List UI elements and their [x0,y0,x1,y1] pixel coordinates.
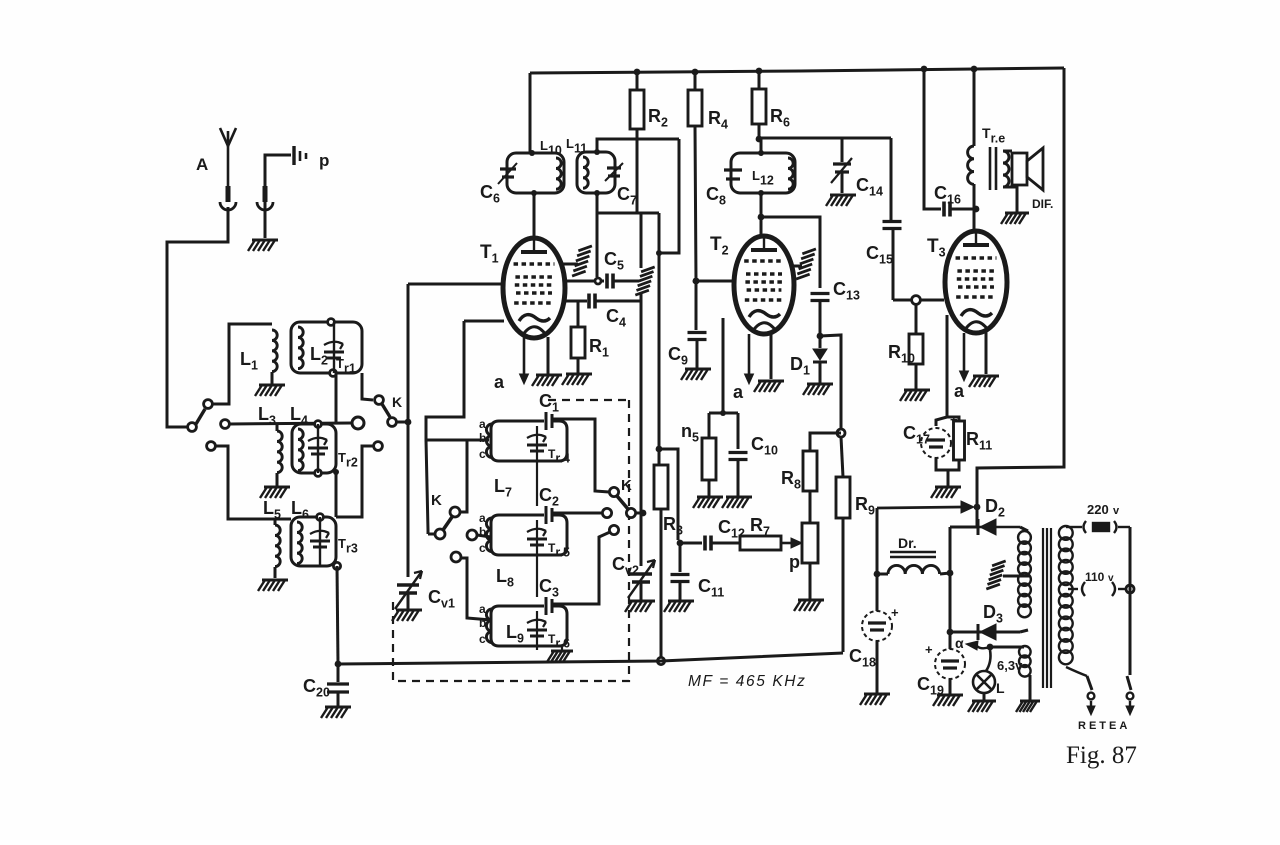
svg-text:c: c [479,447,486,461]
node R8/R9 [837,429,845,437]
wire choke to arrow [876,508,879,573]
ground lamp [968,701,996,712]
resistor R7 [740,536,781,550]
cathode arrow T3 [960,333,969,381]
wire L6 to C20 [337,566,338,664]
node R3/AVC bus [657,657,664,664]
svg-text:MF = 465 KHz: MF = 465 KHz [688,673,806,690]
wire n5 bottom [708,480,711,496]
junction D2 output [947,570,954,577]
ground C17/R11 [931,487,961,498]
trimmer Tr5 [527,529,547,545]
wire T1 to C5 [564,280,604,283]
node L2 bottom [330,370,337,377]
node L4 bottom [315,470,322,477]
pentode T2 [734,236,794,334]
electrolytic C19 [935,649,965,679]
plug P body [257,186,273,210]
contact K1 a [375,396,384,405]
wire R10 bottom [915,364,918,389]
wire R7 to R8 wiper arrow [781,538,802,548]
capacitor C5 [607,274,613,289]
wire R3 top [658,213,661,465]
wire C18 bottom [876,641,879,693]
capacitor C11 [671,575,690,582]
wire R3 bottom [660,509,663,657]
capacitor C15 [883,222,902,229]
capacitor C1 [546,412,552,430]
wire C1 to K3 [552,419,609,492]
wire grid T1 from band switch [408,283,504,286]
wire n5 top [708,413,711,438]
transformer Tce core [990,147,996,190]
wire C16 to T3 [951,208,974,211]
wire C14 top [841,138,844,162]
oscillator coil box L8/Tr5 [491,515,567,555]
wire C7 bottom to C5 node [596,193,599,277]
antenna A [220,128,236,188]
contact L9 b [451,552,461,562]
switch blade K2 [443,517,452,530]
svg-text:L: L [996,680,1005,696]
svg-text:α: α [955,635,964,651]
wire R9 top [841,437,843,477]
wire C6 box to T1 plate [533,193,536,237]
junction n5/C10 tee [720,410,726,416]
junction C11/C12 [677,540,684,547]
ground P [248,240,278,251]
inductor L12 [788,158,793,189]
node C5 [595,278,601,284]
junction grid line [405,419,412,426]
wire T2 to chassis hatch [794,265,802,268]
capacitor C2 [546,506,552,524]
ground C20 [321,707,351,718]
ground speaker [1001,213,1029,224]
wire C17/R11 bottom [936,458,959,470]
capacitor C8 [724,170,742,179]
svg-text:p: p [789,552,800,572]
fuse/tap 220V [1066,521,1130,533]
wire R8 arrow feed [877,501,974,513]
contact K3 c [609,525,618,534]
node rail-R6 [756,68,763,75]
svg-text:RETEA: RETEA [1078,720,1130,732]
chassis connection T1 [572,243,592,279]
chassis center tap [986,558,1005,592]
junction B+ arrow wire [974,504,981,511]
node L6 top [317,514,324,521]
capacitor C12 [705,536,711,551]
contact K3 blade pivot [626,508,635,517]
node L4 top [315,421,322,428]
wire choke right [940,573,950,574]
ground L1 [255,385,285,396]
wire K3 to osc line [636,512,643,515]
trimmer Tr1 [324,342,344,358]
wire C20 bottom [337,692,340,706]
wire C19 top [949,632,952,649]
heater arrow a [966,641,990,650]
wire B+ rail [530,68,1064,73]
wire R9 bottom [842,518,845,652]
node rail-R4 [692,69,699,76]
wire B+ right loop [977,68,1064,526]
wire trimmer Tr4 [536,426,538,461]
wire rail to C6 box [529,73,532,152]
inductor L9 [486,609,492,643]
resistor R6 [752,89,766,124]
wire contact to L9 [461,558,491,620]
resistor R10 [909,334,923,364]
wire C7 top to AVC line [597,139,679,152]
wire R11 top [947,417,959,421]
ground D1 [803,384,833,395]
diode D2 [978,519,996,535]
diode D3 [978,624,996,640]
resistor R4 [688,90,702,126]
contact K2 b [435,529,445,539]
ground C10 [722,497,752,508]
wire to Cv1 [407,422,410,577]
inductor L11 [583,157,588,188]
wire C11 bottom [679,582,682,600]
inductor L1 [272,330,277,372]
junction lamp/6.3V [987,644,994,651]
tap 110V [1068,582,1126,596]
antenna plug [220,186,236,210]
output pentode T3 [945,231,1007,333]
contact K1 c [374,442,383,451]
capacitor C3 [546,597,552,615]
wire speaker to ground [1003,187,1017,212]
wire contact to L8 [477,535,491,537]
switch blade K1 [382,404,390,417]
capacitor C20 [327,684,349,692]
wire C4 to osc line [596,300,641,303]
wire P to ground [264,207,267,238]
wire C14 bottom [841,172,844,193]
wire choke left [877,573,888,576]
inductor Tr.R 6.3V winding [1019,646,1031,677]
wire L5 to ground [274,567,277,578]
svg-text:K: K [621,477,632,494]
svg-text:v: v [1108,573,1114,584]
IF transformer box L11/C7 [577,152,615,193]
wire rail-R2 top [636,72,639,90]
wire mains right [1129,527,1132,675]
wire R4 to T2 grid and C9 [695,126,696,330]
wire T1 osc grid [464,320,504,323]
wire L2 to K1 [362,373,373,400]
svg-text:6,3v: 6,3v [997,658,1023,673]
wire C15 to T3 grid [892,229,895,300]
svg-text:c: c [479,541,486,555]
inductor Tce secondary [1003,151,1009,187]
svg-text:a: a [479,511,486,525]
wire T1 to chassis hatch [560,263,578,266]
switch blade K3 [617,496,628,509]
ground T1 [532,375,562,386]
trimmer Tr6 [527,620,547,636]
wire 6.3V top [990,646,1024,649]
loudspeaker DIF [1012,148,1043,190]
variable capacitor Cv1 [395,571,422,609]
wire contact to L6 band [336,446,373,517]
junction L4 box bottom [333,469,339,475]
svg-text:b: b [479,616,486,630]
node C6 box bottom [531,190,537,196]
resistor R3 [654,465,668,509]
ground 6.3V [1016,701,1040,712]
wire to C12 [680,542,702,545]
resistor n5 [702,438,716,480]
junction D3 output [947,629,954,636]
contact big L4 [352,417,364,429]
inductor Tce primary [968,146,974,184]
capacitor C14 [831,158,852,183]
wire to L5/L6 [216,446,291,519]
transformer Tr.R core [1043,528,1051,688]
wire plug P [265,155,291,210]
wire trimmer Tr5 [536,520,538,555]
wire T2 grid [696,280,734,283]
wire band switch vertical [407,284,410,422]
switch blade ant [196,409,205,424]
wire AGC branch [659,449,678,540]
cathode arrow T2 [745,334,754,384]
wire T2 diode plate [722,318,725,413]
node C7 box top [594,149,600,155]
wire HV top [1020,527,1028,531]
wire AVC bus [338,653,843,664]
svg-text:K: K [392,394,402,410]
ground Cv1 [392,610,422,621]
wire to C13 [761,217,820,288]
wire K1 to grid line [397,421,408,424]
wire T1 to ground [547,337,550,374]
oscillator coil box L4/Tr2 [292,424,336,473]
junction R4/T2 grid [693,278,700,285]
contact L8 b [467,530,477,540]
ground R10 [900,390,930,401]
wire D1 to ground [819,362,822,383]
wire lamp ground [983,693,986,700]
oscillator coil box L6/Tr3 [291,517,336,566]
junction AVC/R3 line [656,250,662,256]
wire trimmer Tr6 [536,611,538,646]
wire C13 to D1 [819,301,822,348]
svg-text:a: a [494,372,505,392]
wire group1-2 link [536,461,538,506]
node rail-C16 [921,66,928,73]
wire L4 to L6 box [335,473,338,517]
wire C8 box to T2 plate [760,193,763,237]
svg-text:+: + [925,642,933,657]
wire node to R8 [810,433,841,451]
junction R6 bottom [756,136,763,143]
wire group2-3 link [536,555,538,597]
trimmer Tr3 [310,531,330,547]
wire D2 branch [977,526,1020,529]
wire L3/L4 row [230,423,352,424]
capacitor C13 [811,294,830,301]
capacitor C6 [498,163,517,184]
wire R1 top [577,301,580,327]
svg-text:v: v [1113,505,1120,517]
wire D2 out left [950,526,977,529]
ground Cv2 [625,601,655,612]
wire L5 stub [274,519,277,525]
resistor R8 upper [803,451,817,491]
inductor Dr [888,565,940,574]
diode D1 [813,349,827,362]
ground oscillator coils [547,651,573,662]
contact L1 [204,400,213,409]
svg-text:220: 220 [1087,502,1109,517]
wire C3 to K3 [552,532,610,604]
wire C12 to R7 [712,542,740,545]
svg-text:a: a [733,382,744,402]
svg-text:K: K [431,492,442,509]
wire rail to C16 [924,69,941,209]
junction C13 branch [758,214,765,221]
wire n5/C10 tee [709,412,738,415]
junction C16/T3 [973,206,980,213]
oscillator coil box L7/Tr4 [491,421,567,461]
inductor L3 [277,431,282,473]
wire C10 bottom [737,460,740,496]
wire C9 to ground [696,340,699,368]
wire 6.3V bottom [1029,675,1032,700]
cathode arrow T1 [520,336,529,384]
capacitor C10 [729,453,748,460]
svg-text:+: + [891,605,899,620]
ground C19 [933,695,963,706]
capacitor C16 [944,202,950,217]
wire Tce to T3 plate [973,184,976,233]
capacitor C4 [589,294,595,309]
inductor L10 [556,158,561,189]
wire L1 to ground [271,372,274,384]
junction R3/AGC [656,446,663,453]
svg-text:b: b [479,525,486,539]
wire C5 to chassis [614,280,639,283]
wire C15 top [890,138,893,220]
dial lamp L [973,650,995,693]
wire C19 bottom [949,679,952,694]
trimmer Tr4 [527,435,547,451]
capacitor C7 [605,163,623,181]
svg-text:DIF.: DIF. [1032,197,1053,211]
resistor R11 [954,421,965,460]
wire T3 to ground [985,331,988,374]
svg-text:b: b [479,431,486,445]
node T3 grid/R10 [912,296,921,305]
wire R8 middle [809,491,812,523]
oscillator coil box L2/Tr1 [291,322,362,373]
chassis connection T2 [796,246,816,282]
ground R1 [562,374,592,385]
ground C14 [826,195,856,206]
junction K3 blade [640,510,647,517]
wire R6 bottom [758,124,761,139]
wire rail-R4 top [694,72,697,90]
wire osc to K2 contact [428,533,435,536]
inductor L7 [486,424,492,458]
ground R8 [794,600,824,611]
wire to R8/R9 node [820,335,841,429]
wire R6 to C15 branch [759,137,891,140]
wire Tr3 [319,517,321,566]
wire R8 bottom [809,563,812,599]
wire D3 [950,631,1020,634]
junction C20 [335,661,342,668]
resistor R9 [836,477,850,518]
wire to L1 [213,324,272,404]
svg-text:A: A [196,155,208,174]
wire R6 to C8 box [760,139,763,153]
wire group3 ground link [536,646,538,650]
ground L5 [258,580,288,591]
node C7 box bottom [594,190,600,196]
wire Cv1 ground [407,593,410,609]
oscillator coil box L9/Tr6 [491,606,567,646]
wire L3 stub [276,424,279,431]
node L2 top [328,319,335,326]
ground T2 [754,381,784,392]
node 110V [1126,585,1134,593]
node C8 box top [758,150,764,156]
wire Tr1 [333,322,335,373]
wire rail to Tce [973,69,976,146]
inductor L2 [298,327,303,369]
wire R2 bottom [636,129,639,214]
triode-hexode T1 [503,238,565,338]
node L6 bottom [333,562,340,569]
resistor R2 [630,90,644,129]
svg-text:110: 110 [1085,570,1105,584]
inductor Tr.R HV secondary [1018,531,1031,617]
wire primary bottom [1066,667,1087,676]
svg-text:c: c [479,632,486,646]
mains switch left [1087,676,1095,715]
ground T3 [969,376,999,387]
node rail-R2 [634,69,641,76]
contact L3 row [221,420,230,429]
resistor R1 [571,327,585,358]
node C6 box top [529,150,535,156]
mains switch right [1126,676,1134,715]
wire C18 top [876,574,879,611]
contact K1 b [388,418,397,427]
inductor L8 [486,518,492,552]
wire rectifier output [949,527,952,632]
wire rail-R6 top [758,71,761,89]
wire C2 to K3 [552,512,602,515]
wire osc line upper [640,214,643,268]
wire R10 top [915,304,918,334]
wire K2 to L7 tap [460,441,467,512]
contact antenna [188,423,197,432]
inductor L4 [298,429,303,471]
wire T3 grid [893,299,944,302]
ground C9 [681,369,711,380]
wire osc to K2 blade [426,440,428,534]
node rail-Tce [971,66,978,73]
wire T1 osc grid to L7 tap b [426,321,489,440]
wire L2 to L4 box [335,373,338,424]
